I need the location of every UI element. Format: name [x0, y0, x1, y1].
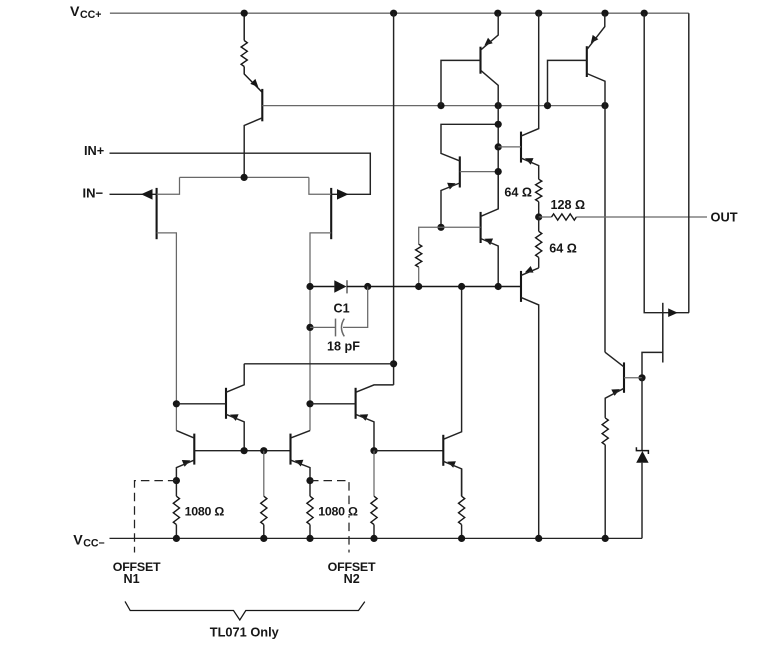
wire node to R5 [539, 216, 552, 218]
wire comp row [310, 286, 334, 288]
svg-text:V: V [70, 4, 80, 20]
wire base row right [374, 450, 443, 452]
node x498 at y172 [495, 168, 502, 175]
resistor R10 [371, 496, 377, 524]
node VCC- at R9 [306, 535, 313, 542]
wire R2 to comp row [418, 267, 420, 286]
svg-text:64 Ω: 64 Ω [504, 185, 532, 199]
resistor R7 [602, 418, 608, 445]
node output divider [535, 213, 542, 220]
JFET J3 arrow [668, 308, 678, 317]
wire J2 source stub [309, 177, 331, 194]
node VCC+ junction x394 [390, 10, 397, 17]
node VCC- at R10 [370, 535, 377, 542]
wire comp row right [347, 286, 521, 288]
wire Q6 collector [176, 431, 194, 439]
node J2 drain at Q7 base [306, 400, 313, 407]
node base row at Q5 emitter [241, 447, 248, 454]
node VCC- at Q12 [535, 535, 542, 542]
wire VCC+ to R1 [243, 13, 245, 40]
wire tail rail [180, 176, 309, 178]
label C1 value [327, 340, 360, 354]
wire Q3 emitter [481, 13, 499, 50]
wire right edge [688, 13, 690, 313]
transistor Q6 (mirror out left) [182, 434, 195, 467]
J2 gate arrow [337, 189, 349, 200]
node x498 at y124 [495, 121, 502, 128]
resistor R3 1080 [261, 496, 267, 524]
capacitor C1 [336, 319, 345, 337]
wire R10 to rail [373, 525, 375, 539]
node Q2 emitter junction [437, 224, 444, 231]
wire Q7 emitter to R9 [309, 481, 311, 497]
wire Q2 emitter [441, 183, 460, 227]
resistor R5 128ohm [552, 214, 577, 220]
node J2 drain at C1 [306, 324, 313, 331]
wire Q11 base [441, 226, 481, 228]
node base rail junction Q4 collector [601, 102, 608, 109]
svg-text:1080 Ω: 1080 Ω [185, 504, 225, 518]
OFFSET N2 label [328, 560, 376, 586]
node Q8 emitter junction [370, 447, 377, 454]
capacitor C1 right wire [343, 287, 368, 328]
wire Q8 emitter [356, 414, 374, 450]
svg-text:TL071 Only: TL071 Only [210, 624, 280, 639]
wire R3 to rail [263, 525, 265, 539]
svg-text:64 Ω: 64 Ω [549, 242, 577, 256]
node J1 drain at Q5 base [173, 400, 180, 407]
transistor Q3 (PNP load left) [481, 38, 493, 74]
wire Q10 emitter [443, 461, 461, 496]
wire R6 to Q12 emitter [538, 257, 540, 268]
svg-text:128 Ω: 128 Ω [551, 198, 586, 212]
wire J2 drain [310, 233, 331, 431]
wire Q11 emitter [481, 239, 499, 287]
IN+ label [84, 143, 104, 158]
wire Q7 emitter [291, 460, 311, 481]
transistor Q4 (PNP load right) [587, 35, 599, 77]
transistor Q1 (PNP bias) [250, 79, 262, 121]
wire Q1 base rail y106 [262, 105, 605, 107]
svg-text:CC+: CC+ [80, 9, 102, 21]
node tail junction [241, 174, 248, 181]
label C1 [334, 301, 350, 315]
svg-text:V: V [73, 532, 83, 548]
wire R8 to rail [175, 525, 177, 539]
resistor R2 [416, 244, 422, 267]
node x394 at y364 [390, 360, 397, 367]
wire R7 to VCC- [604, 445, 606, 539]
node VCC- at R8 [173, 535, 180, 542]
node VCC- at R11 [458, 535, 465, 542]
transistor Q11 (darlington) [481, 212, 494, 245]
wire Q5 base [176, 403, 226, 405]
OFFSET N1 label [113, 560, 161, 586]
wire IN− to J1 gate [110, 193, 157, 195]
transistor Q10 (sink driver) [443, 435, 456, 468]
label R5 128ohm [551, 198, 586, 212]
wire zener to VCC- [641, 463, 643, 539]
node VCC- at R7 [602, 535, 609, 542]
wire Q12 collector [521, 297, 539, 538]
wire IN+ to J2 gate [110, 153, 371, 194]
wire Q2 base [460, 171, 498, 173]
wire Q4 collector [587, 74, 605, 353]
svg-text:CC−: CC− [83, 537, 105, 549]
wire Q3 base [441, 60, 481, 105]
node VCC+ junction gate line [641, 10, 648, 17]
wire VCC- rail [110, 537, 643, 539]
wire J3 source stub [642, 352, 663, 377]
wire Q3 collector [481, 70, 499, 209]
wire Q10 collector [443, 287, 461, 440]
node base rail junction Q4 base [544, 102, 551, 109]
node VCC- at R3 [260, 535, 267, 542]
wire Q8 emitter to R10 [373, 451, 375, 497]
wire Q7 collector [291, 431, 311, 439]
wire Q6 emitter [176, 460, 194, 481]
wire R9 to rail [309, 525, 311, 539]
JFET J3 channel [662, 303, 664, 363]
wire node to R6 [538, 217, 540, 231]
wire VCC+ top rail [110, 12, 689, 14]
node x498 at y147 [495, 143, 502, 150]
wire zener link [641, 378, 643, 451]
transistor Q2 (level shift) [447, 156, 460, 189]
wire base row left [194, 450, 290, 452]
IN− label [83, 186, 104, 201]
OUT label [711, 210, 738, 225]
svg-text:18 pF: 18 pF [327, 340, 360, 354]
node offset N1 tap [173, 477, 180, 484]
dashed offset N2 [310, 481, 349, 553]
transistor Q13 (discharge) [611, 362, 624, 396]
wire gate line left [644, 13, 689, 313]
transistor Q12 (output bottom PNP) [521, 266, 534, 302]
resistor R11 [459, 496, 465, 524]
node J2 drain at comp row [306, 283, 313, 290]
wire Q8 collector [356, 385, 394, 392]
wire R1 to Q1 emitter [244, 67, 262, 93]
zener diode DZ1 [636, 447, 648, 463]
transistor Q7 (mirror out right) [291, 434, 304, 467]
wire Q2 collector loop [441, 124, 498, 161]
wire J1 drain [157, 233, 177, 431]
wire Q13 base [624, 377, 642, 379]
J1 gate arrow [141, 189, 153, 200]
wire to R2 [419, 227, 441, 244]
node base rail junction Q3 base [437, 102, 444, 109]
wire Q5 emitter [226, 414, 244, 450]
node comp at Q11 emitter [495, 283, 502, 290]
VCC- label [73, 532, 105, 549]
wire Q4 base [548, 60, 587, 105]
node zener top [638, 374, 645, 381]
node base rail junction Q3 collector [495, 102, 502, 109]
node comp at Q10 collector [458, 283, 465, 290]
diode D1 [334, 280, 347, 293]
brace TL071 only [125, 601, 365, 620]
wire Q1 collector [244, 118, 262, 178]
wire Q9 emitter [521, 158, 539, 179]
node offset N2 tap [306, 477, 313, 484]
resistor R1 bias [241, 41, 247, 67]
capacitor C1 left wire [310, 326, 336, 328]
svg-text:OUT: OUT [711, 210, 738, 225]
wire Q10 emitter to R11 [461, 469, 463, 496]
wire R5 to OUT [576, 216, 707, 218]
node VCC+ junction Q4 emitter [601, 10, 608, 17]
wire Q4 emitter [587, 13, 605, 50]
wire Q11 collector [481, 172, 499, 217]
svg-text:N1: N1 [124, 572, 140, 586]
label R4 64ohm [504, 185, 532, 199]
node comp at C1 right [364, 283, 371, 290]
node base row at R3 top [260, 447, 267, 454]
wire Q9 collector [521, 13, 539, 136]
resistor R8 1080 [173, 496, 179, 524]
transistor Q8 (second stage) [356, 388, 369, 421]
wire y364 link [244, 363, 393, 365]
label R6 64ohm [549, 242, 577, 256]
svg-text:IN−: IN− [83, 186, 104, 201]
resistor R4 64ohm top [536, 179, 542, 202]
label R8 1080 [184, 504, 225, 518]
input JFET J1 [156, 188, 158, 239]
wire Q12 emitter diag [521, 268, 539, 276]
transistor Q9 (output top) [521, 132, 534, 165]
svg-text:N2: N2 [344, 572, 360, 586]
svg-text:1080 Ω: 1080 Ω [318, 504, 358, 518]
TL071 Only label [210, 624, 280, 639]
wire Q9 base [498, 146, 521, 148]
wire Q5 collector [226, 364, 244, 393]
svg-text:IN+: IN+ [84, 143, 104, 158]
wire R11 to rail [461, 525, 463, 539]
node VCC+ junction Q3 emitter [494, 10, 501, 17]
wire Q8 base [310, 403, 356, 405]
wire R3 link [263, 451, 265, 497]
svg-text:C1: C1 [334, 301, 350, 315]
wire Q13 emitter [605, 388, 624, 418]
resistor R6 64ohm bottom [536, 231, 542, 257]
node VCC+ junction Q9 collector [535, 10, 542, 17]
VCC+ label [70, 4, 102, 21]
input JFET J2 [330, 188, 332, 239]
wire J1 source stub [157, 177, 180, 194]
resistor R9 1080 [307, 496, 313, 524]
wire Q6 emitter to R8 [175, 481, 177, 497]
wire R4 to node [538, 202, 540, 217]
dashed offset N1 [135, 481, 177, 553]
transistor Q5 (mirror in) [226, 388, 239, 421]
label R9 1080 [318, 504, 360, 518]
wire x394 from VCC+ [393, 13, 395, 385]
wire Q13 collector [605, 352, 624, 367]
node comp at R2 [415, 283, 422, 290]
node VCC+ junction at R1 [241, 10, 248, 17]
